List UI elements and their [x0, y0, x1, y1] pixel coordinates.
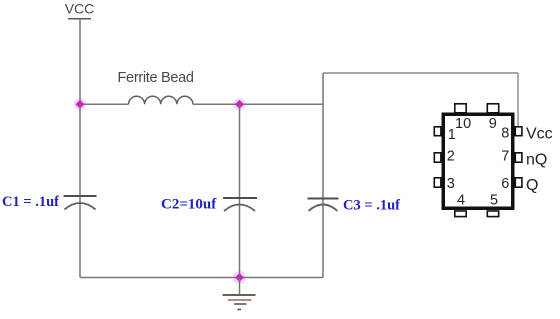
node junction at C2 branch / top rail [234, 98, 246, 110]
capacitor C2 [223, 198, 257, 211]
power symbol VCC [65, 1, 95, 19]
svg-text:Vcc: Vcc [526, 125, 553, 142]
svg-text:nQ: nQ [526, 151, 547, 168]
pin 5 pad (bottom-right) [487, 211, 498, 217]
pin 3 pad (left) [434, 178, 441, 187]
capacitor C1 [64, 196, 97, 210]
wire ground stub [239, 278, 241, 295]
svg-text:VCC: VCC [65, 1, 95, 17]
pin 10 pad (top-left) [455, 104, 466, 113]
wire top rail left segment [80, 103, 129, 105]
node junction at VCC / C1 branch [74, 98, 86, 110]
capacitor C3 [308, 199, 339, 212]
pin 1 pad (left) [434, 127, 441, 136]
IC U1 body [443, 114, 513, 208]
inductor FB1 Ferrite Bead [129, 96, 193, 104]
svg-text:10: 10 [455, 116, 471, 132]
svg-text:8: 8 [501, 126, 509, 142]
pin 6 pad (right) [515, 178, 522, 187]
svg-text:C1 = .1uf: C1 = .1uf [2, 194, 59, 210]
svg-text:9: 9 [489, 116, 497, 132]
wire bottom rail [80, 277, 323, 279]
svg-text:6: 6 [501, 176, 509, 192]
svg-text:C3 = .1uf: C3 = .1uf [343, 198, 400, 214]
wire top rail right segment [193, 103, 323, 105]
pin 9 pad (top-right) [487, 104, 498, 113]
pin 2 pad (left) [434, 153, 441, 162]
pin 7 pad (right) [515, 153, 522, 162]
node junction at ground [233, 271, 246, 284]
wire C3 branch vertical [322, 73, 324, 278]
wire top link horizontal to IC [323, 72, 518, 74]
svg-text:C2=10uf: C2=10uf [161, 197, 217, 213]
svg-text:4: 4 [457, 193, 465, 209]
wire IC VCC drop [517, 73, 519, 126]
pin 8 pad (right) [515, 127, 522, 136]
svg-text:1: 1 [448, 127, 456, 143]
wire C2 branch vertical [239, 104, 241, 277]
svg-text:2: 2 [447, 148, 455, 164]
wire C1 branch vertical [79, 104, 81, 277]
ground [223, 295, 256, 310]
svg-text:7: 7 [501, 148, 509, 164]
wire VCC vertical down to top rail [79, 19, 81, 105]
pin 4 pad (bottom-left) [455, 211, 466, 217]
svg-text:5: 5 [490, 193, 498, 209]
svg-text:Q: Q [526, 177, 538, 194]
svg-text:3: 3 [447, 176, 455, 192]
svg-text:Ferrite Bead: Ferrite Bead [118, 70, 194, 86]
